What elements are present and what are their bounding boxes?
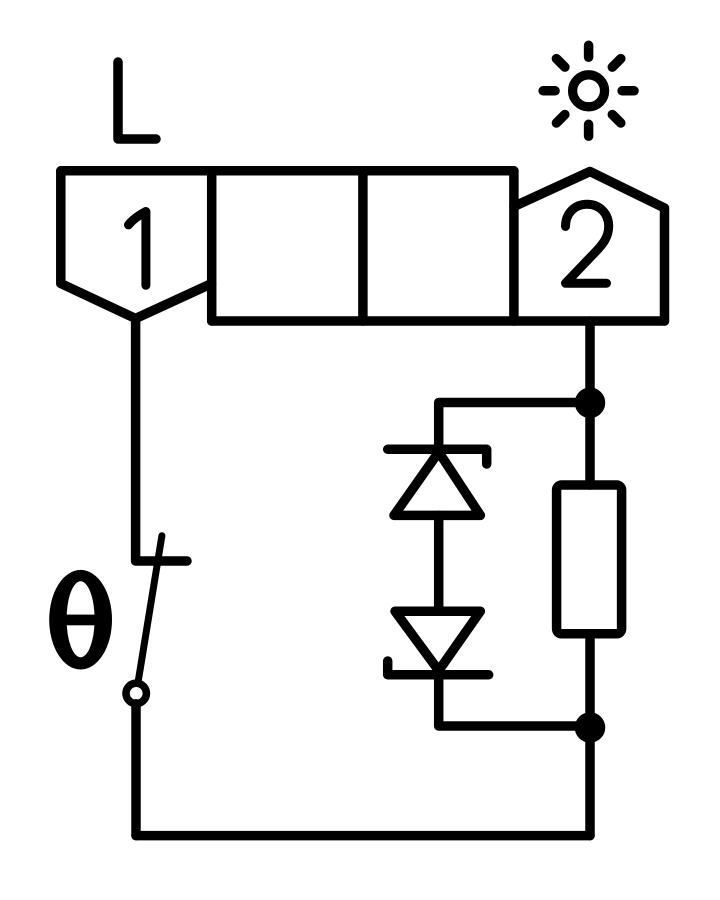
top branch wire — [439, 403, 590, 450]
wire from terminal 1 down — [136, 319, 187, 562]
terminal 1 (pentagon) — [61, 171, 212, 319]
terminal block divider 2 — [358, 171, 368, 321]
label L — [118, 62, 156, 139]
terminal 2 (house pentagon) — [514, 172, 665, 322]
digit 2 — [566, 204, 609, 283]
right riser wire — [585, 728, 595, 836]
switch lever — [139, 536, 162, 680]
terminal block bottom edge — [212, 316, 665, 326]
switch pivot circle — [126, 683, 146, 703]
zener diode D2 cathode bar — [388, 661, 489, 675]
wire from terminal 2 down — [585, 321, 595, 403]
zener diode D1 cathode bar — [388, 449, 487, 464]
wire below switch pivot — [131, 704, 141, 836]
lamp symbol (sun icon) — [543, 45, 634, 136]
digit 1 — [129, 212, 146, 286]
node A (top junction dot) — [580, 392, 601, 413]
thermal symbol theta — [49, 570, 112, 670]
terminal block divider 3 — [509, 171, 519, 321]
resistor R — [557, 485, 622, 634]
terminal block divider 1 — [207, 171, 217, 321]
wire resistor to node B — [585, 634, 595, 728]
zener diode D1 triangle — [394, 452, 480, 515]
wire node A to resistor — [585, 403, 595, 485]
zener diode D2 triangle — [395, 611, 480, 670]
bottom wire — [136, 831, 590, 841]
node B (bottom junction dot) — [580, 717, 601, 738]
bottom branch wire — [439, 675, 590, 726]
wire D1 to D2 — [434, 515, 444, 611]
terminal block top edge — [61, 166, 514, 176]
